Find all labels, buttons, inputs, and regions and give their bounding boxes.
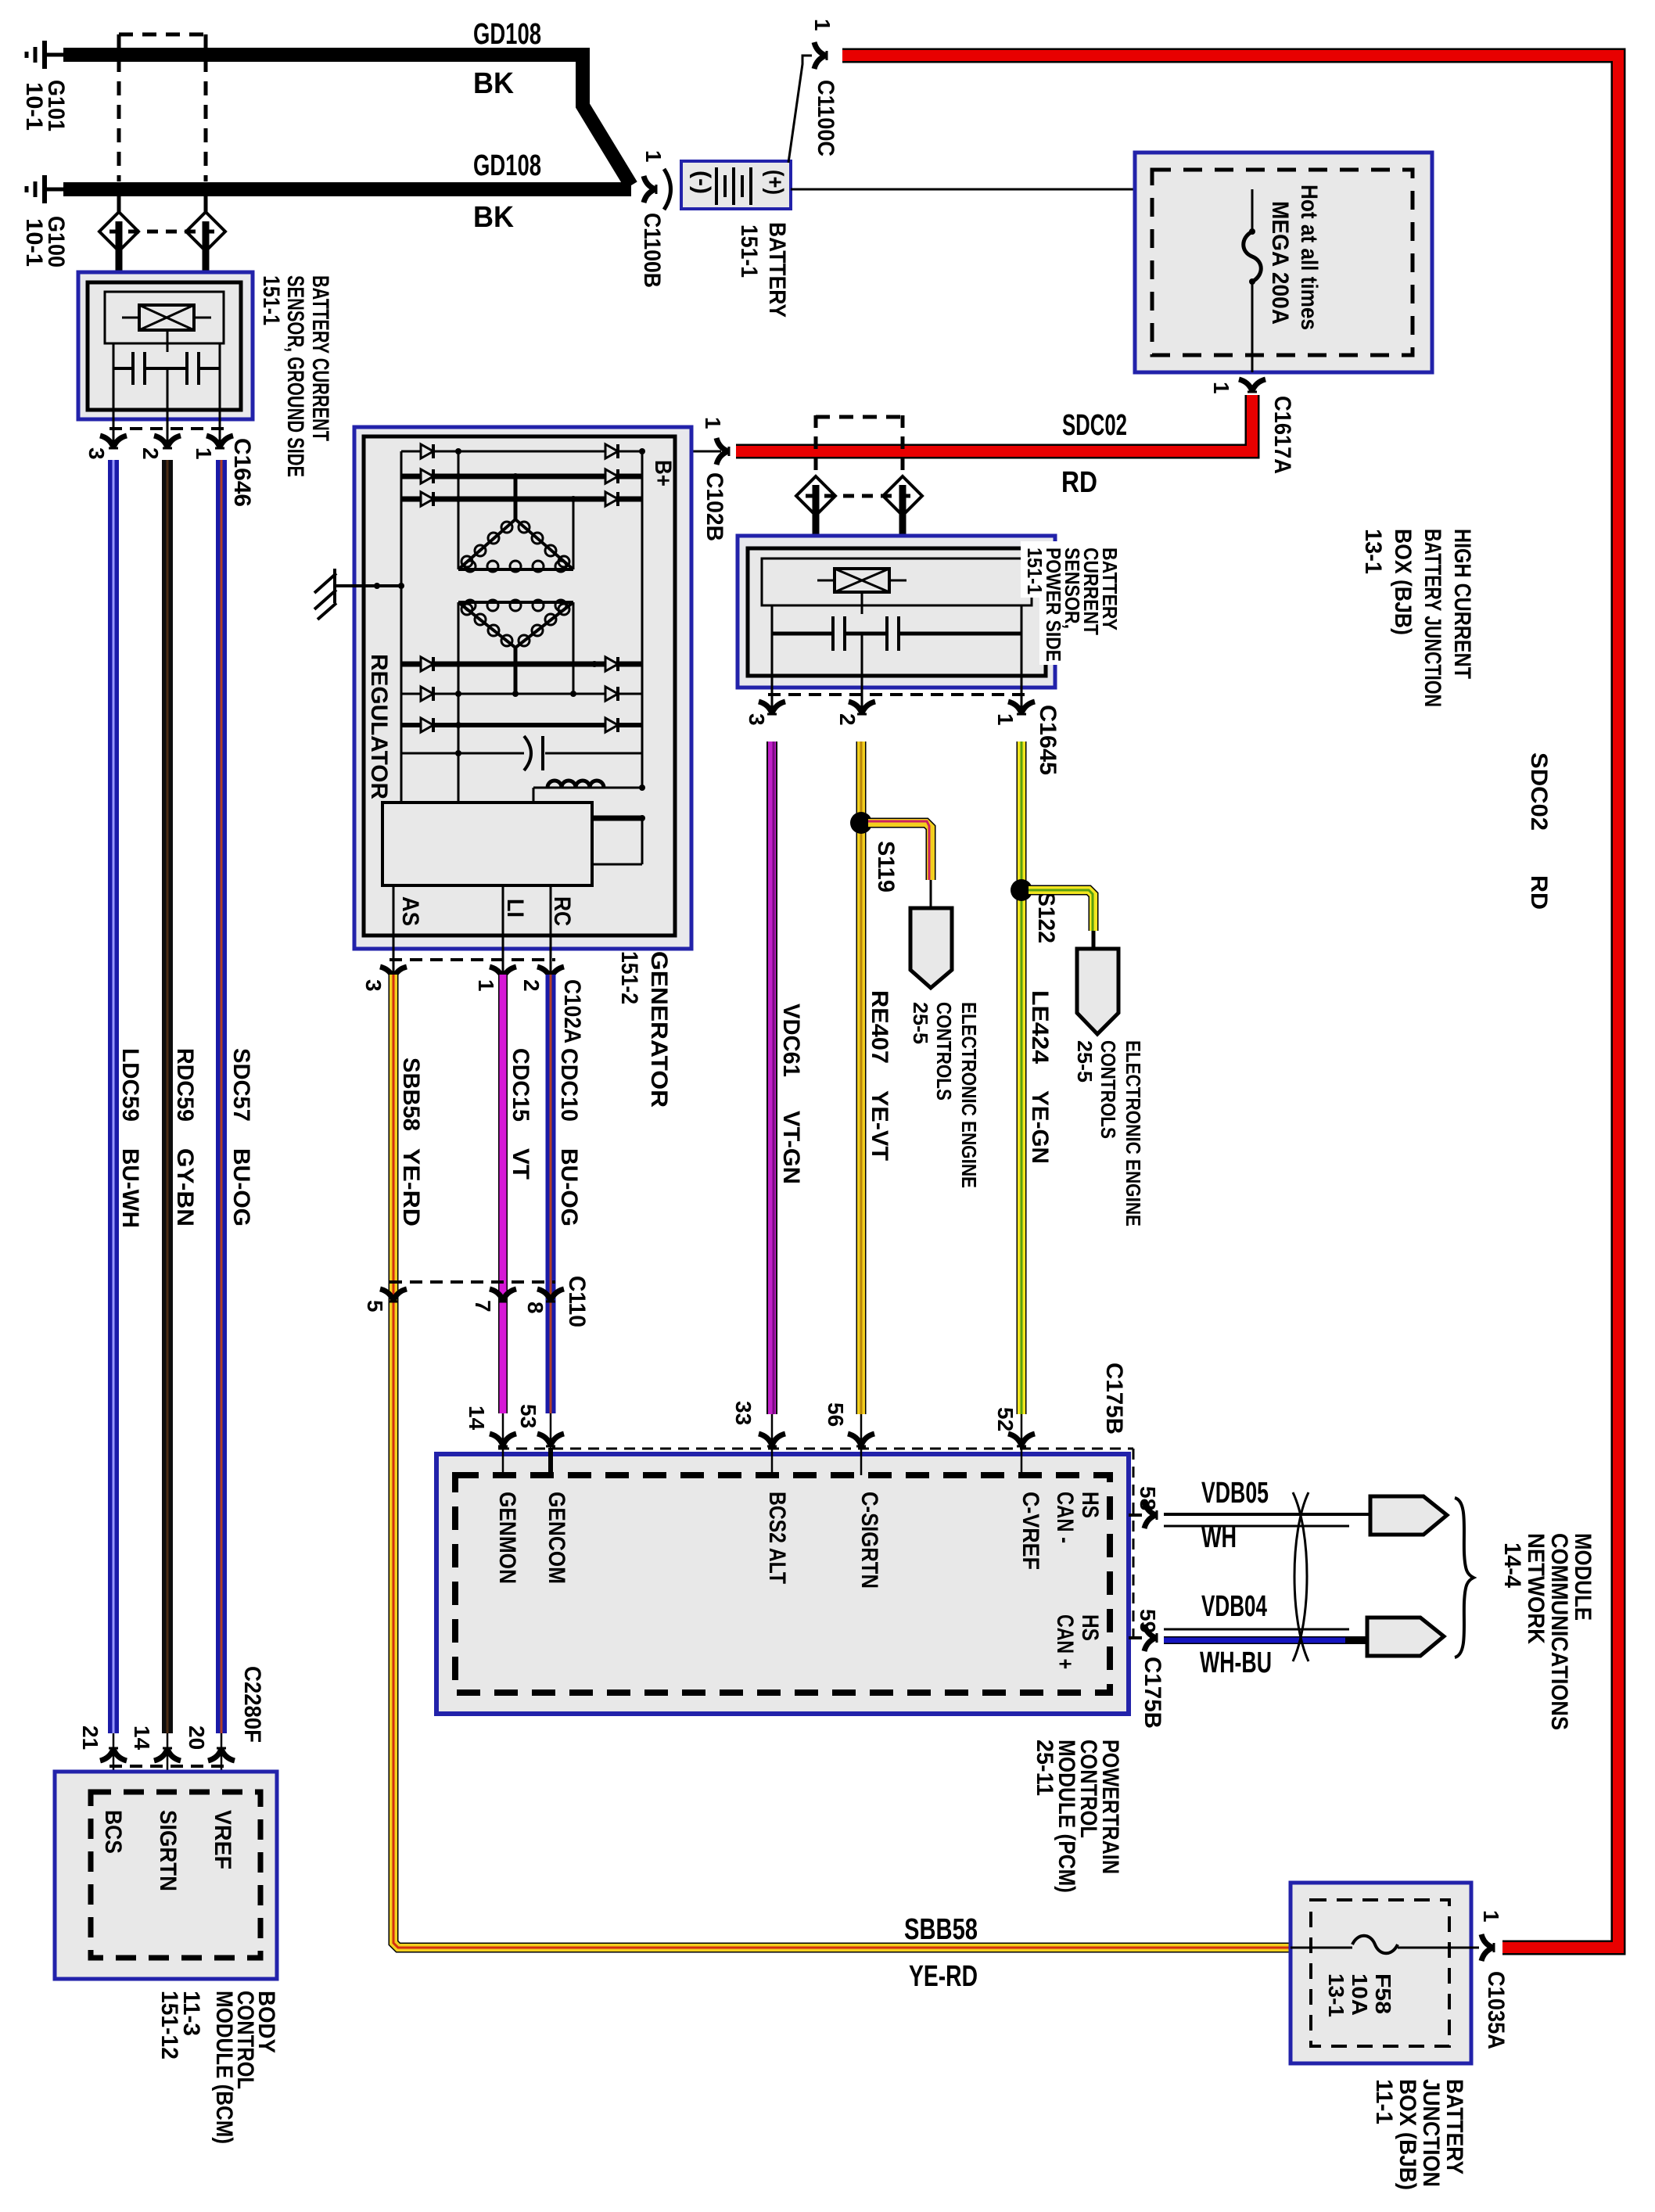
- svg-text:YE-RD: YE-RD: [398, 1148, 424, 1226]
- generator B+ output lead: [675, 451, 721, 453]
- PCM pin 52 lead and arrow: [1008, 1414, 1035, 1475]
- wire label VDB05 WH: [1201, 1477, 1269, 1554]
- connector C110 pin 5 arrow: [380, 1289, 407, 1302]
- connector C2280F pin 21 arrow: [100, 1733, 127, 1792]
- svg-text:151-1: 151-1: [1023, 548, 1046, 594]
- svg-text:WH: WH: [1201, 1521, 1237, 1554]
- fuse F58 10A: [1291, 1936, 1479, 1954]
- battery current sensor power side box 151-1: [738, 536, 1055, 688]
- svg-text:C2280F: C2280F: [239, 1666, 265, 1743]
- connector label C1100B: [639, 213, 665, 288]
- svg-text:JUNCTION: JUNCTION: [1418, 2079, 1444, 2187]
- svg-text:BU-WH: BU-WH: [117, 1148, 143, 1228]
- wire label RE407 YE-VT: [867, 990, 892, 1161]
- generator vertical to regulator: [458, 753, 460, 803]
- pin number 2 (C102A): [519, 979, 544, 992]
- svg-text:C110: C110: [564, 1276, 590, 1327]
- connector label C1645: [1035, 705, 1061, 775]
- connector C2280F dashed line: [109, 1765, 225, 1768]
- sensor ground capacitor C2: [187, 352, 199, 385]
- wire SBB58 YE-RD (generator AS to BJB fuse F58): [393, 975, 1291, 1948]
- svg-text:NETWORK: NETWORK: [1523, 1533, 1549, 1644]
- PCM port BCS2 ALT: [764, 1492, 790, 1584]
- sensor ground capacitor C1: [133, 352, 145, 385]
- svg-text:1: 1: [810, 19, 835, 31]
- dashed sensor clamp box (ground side): [119, 34, 206, 181]
- sensor ground capacitor line: [113, 367, 220, 370]
- svg-text:BOX (BJB): BOX (BJB): [1390, 529, 1416, 635]
- wire label SDC02 RD (right edge): [1526, 752, 1552, 910]
- ground G100: [27, 175, 64, 203]
- svg-text:MODULE: MODULE: [1570, 1533, 1596, 1621]
- generator pin stub RC: [550, 885, 552, 975]
- connector C1646 dashed line: [109, 427, 224, 430]
- generator diode row 2: [401, 469, 642, 483]
- svg-text:BK: BK: [473, 201, 515, 234]
- wire label GD108 BK top: [473, 18, 541, 100]
- svg-text:SBB58: SBB58: [398, 1058, 424, 1131]
- BCM inner dashed connector box: [91, 1792, 260, 1958]
- clamp diamond right (power side): [883, 476, 922, 536]
- splice label S119: [873, 841, 899, 892]
- svg-text:RD: RD: [1526, 875, 1552, 910]
- dashed link between diamonds: [109, 230, 215, 234]
- svg-text:58: 58: [1136, 1486, 1160, 1510]
- svg-text:151-2: 151-2: [616, 951, 642, 1004]
- generator capacitor line: [401, 750, 642, 756]
- generator field lead and frame ground: [314, 569, 404, 619]
- svg-text:BCS2 ALT: BCS2 ALT: [764, 1492, 790, 1584]
- ground label G100 10-1: [21, 216, 69, 268]
- pin number 5 (C110): [363, 1300, 387, 1312]
- battery (-) terminal symbol: [689, 171, 715, 194]
- splice S122: [1011, 879, 1032, 901]
- generator label REGULATOR: [366, 654, 392, 799]
- svg-text:C1645: C1645: [1035, 705, 1061, 775]
- svg-text:14-4: 14-4: [1499, 1542, 1525, 1588]
- svg-text:CONTROLS: CONTROLS: [1097, 1040, 1120, 1139]
- pin number 52 (PCM): [993, 1407, 1018, 1431]
- svg-text:59: 59: [1136, 1609, 1160, 1633]
- svg-text:BATTERY JUNCTION: BATTERY JUNCTION: [1420, 529, 1445, 707]
- svg-text:MEGA 200A: MEGA 200A: [1267, 201, 1293, 325]
- pin number 8 (C110): [523, 1302, 547, 1314]
- svg-text:1: 1: [192, 447, 216, 460]
- battery junction box (BJB) 11-1: [1291, 1883, 1471, 2063]
- svg-text:SENSOR, GROUND SIDE: SENSOR, GROUND SIDE: [282, 275, 308, 477]
- sensor power capacitor line: [772, 632, 1021, 636]
- connector C1100B arrow and socket: [644, 169, 671, 210]
- PCM pin 33 lead and arrow: [759, 1414, 785, 1475]
- generator pin stub AS: [393, 885, 395, 975]
- BJB inner dashed box: [1311, 1900, 1449, 2046]
- svg-text:SDC02: SDC02: [1062, 409, 1127, 442]
- wire VDC61 VT-GN (sensor power 3 to PCM 33): [772, 742, 774, 1414]
- PCM port GENCOM: [544, 1492, 569, 1584]
- sensor ground hall element box: [105, 292, 224, 343]
- svg-text:RDC59: RDC59: [172, 1048, 198, 1122]
- svg-text:13-1: 13-1: [1360, 529, 1386, 574]
- generator label GENERATOR 151-2: [616, 951, 672, 1108]
- network label MODULE COMMUNICATIONS NETWORK 14-4: [1499, 1533, 1596, 1730]
- pin number 21 (C2280F): [78, 1725, 102, 1750]
- connector C1646 pin 1 arrow: [206, 436, 233, 448]
- PCM pin 14 lead and arrow: [490, 1413, 516, 1475]
- fuse MEGA 200A: [1244, 189, 1262, 372]
- generator pin stub LI: [502, 885, 504, 975]
- connector label C175B (bottom): [1140, 1657, 1165, 1729]
- generator port label RC: [549, 896, 575, 926]
- pin number 1 (C1646): [192, 447, 216, 460]
- wire label SDC02 RD (mid): [1061, 409, 1127, 499]
- wire SDC02 RD from C1617A to generator B+: [736, 395, 1252, 451]
- network brace: [1455, 1498, 1474, 1657]
- wire CDC15 VT (generator LI to C110-7): [498, 975, 508, 1413]
- battery 151-1 box: [681, 161, 791, 209]
- svg-text:BATTERY: BATTERY: [764, 222, 790, 318]
- connector label C102A: [559, 979, 585, 1043]
- connector C102A pin 3 arrow: [380, 967, 407, 979]
- wire S119 branch to electronic engine controls: [868, 821, 931, 908]
- svg-text:C1100B: C1100B: [639, 213, 665, 288]
- ground label G101 10-1: [21, 80, 69, 131]
- connector label C1035A: [1483, 1971, 1509, 2049]
- svg-text:151-12: 151-12: [156, 1991, 182, 2059]
- generator diode row 3: [401, 492, 642, 506]
- sensor power label BATTERY CURRENT SENSOR, POWER SIDE 151-1: [1021, 541, 1122, 665]
- svg-text:AS: AS: [397, 896, 423, 926]
- connector C1617A arrow: [1239, 379, 1265, 392]
- generator diode row 5: [401, 687, 642, 701]
- connector label C175B (top): [1101, 1363, 1127, 1435]
- svg-text:C102A: C102A: [559, 979, 585, 1043]
- battery current sensor ground side box 151-1: [78, 272, 253, 419]
- svg-text:8: 8: [523, 1302, 547, 1314]
- svg-text:HIGH CURRENT: HIGH CURRENT: [1449, 529, 1475, 679]
- pin number 1 (C1645): [993, 713, 1018, 726]
- svg-text:151-1: 151-1: [736, 224, 762, 278]
- connector label C1617A: [1269, 396, 1295, 474]
- svg-text:10-1: 10-1: [21, 82, 47, 131]
- connector C102A dashed line: [390, 958, 555, 961]
- svg-text:53: 53: [516, 1404, 540, 1428]
- sensor power internal wires: [772, 592, 1021, 676]
- wire label SBB58 YE-RD (bottom horizontal): [904, 1913, 978, 1993]
- PCM label POWERTRAIN CONTROL MODULE (PCM) 25-11: [1032, 1740, 1123, 1893]
- svg-text:11-1: 11-1: [1371, 2079, 1397, 2124]
- pin number 3 (C102A): [361, 979, 386, 992]
- svg-text:HS: HS: [1077, 1492, 1103, 1518]
- sensor power hall element box: [762, 558, 1032, 605]
- svg-text:BOX (BJB): BOX (BJB): [1395, 2079, 1420, 2190]
- wire VDB04 WH-BU twisted pair: [1164, 1629, 1370, 1640]
- svg-text:10-1: 10-1: [21, 218, 47, 267]
- wire label GD108 BK bottom: [473, 149, 541, 234]
- svg-text:ELECTRONIC ENGINE: ELECTRONIC ENGINE: [957, 1002, 981, 1188]
- PCM pin 56 lead and arrow: [848, 1414, 874, 1475]
- terminal lug VDB05: [1370, 1496, 1447, 1535]
- fuse label Hot at all times MEGA 200A: [1267, 185, 1322, 330]
- svg-text:C175B: C175B: [1101, 1363, 1127, 1435]
- svg-text:VT: VT: [508, 1148, 533, 1180]
- svg-text:CAN -: CAN -: [1052, 1492, 1078, 1543]
- wire S122 branch to electronic engine controls: [1029, 890, 1093, 949]
- generator capacitor symbol: [524, 736, 543, 770]
- svg-text:CDC10: CDC10: [556, 1048, 582, 1122]
- dashed sensor clamp box (power side): [816, 415, 903, 479]
- connector label C1646: [229, 438, 255, 507]
- connector label C1100C: [813, 80, 838, 156]
- connector C1100C arrow: [814, 42, 827, 69]
- svg-text:1: 1: [701, 417, 725, 429]
- wire VDB05 WH twisted pair: [1164, 1514, 1373, 1526]
- pin number 2 (C1645): [835, 713, 860, 726]
- generator label B+: [650, 460, 676, 487]
- svg-text:CONTROLS: CONTROLS: [932, 1002, 956, 1101]
- pin number 33 (PCM): [731, 1401, 756, 1425]
- PCM pin 53 lead and arrow: [537, 1413, 564, 1478]
- sensor ground X element: [122, 305, 211, 330]
- body control module (BCM) box: [55, 1772, 277, 1979]
- svg-text:S122: S122: [1033, 892, 1059, 943]
- svg-text:1: 1: [993, 713, 1018, 726]
- PCM pin 58 lead and arrow: [1129, 1502, 1157, 1528]
- svg-text:C1617A: C1617A: [1269, 396, 1295, 474]
- sensor power inner case: [748, 548, 1046, 676]
- svg-text:BK: BK: [473, 67, 515, 100]
- label ELECTRONIC ENGINE CONTROLS 25-5 (S122): [1073, 1040, 1145, 1226]
- wire label CDC10 BU-OG: [556, 1048, 582, 1226]
- svg-text:CAN +: CAN +: [1052, 1614, 1078, 1669]
- pin number 3 (C1646): [84, 447, 109, 460]
- pin number 56 (PCM): [824, 1402, 848, 1427]
- svg-text:13-1: 13-1: [1324, 1973, 1348, 2017]
- svg-text:SBB58: SBB58: [904, 1913, 978, 1946]
- PCM port GENMON: [494, 1492, 520, 1584]
- svg-text:VREF: VREF: [210, 1810, 235, 1869]
- svg-text:YE-GN: YE-GN: [1027, 1090, 1053, 1164]
- svg-text:GD108: GD108: [473, 18, 541, 51]
- BCM port BCS: [100, 1810, 126, 1854]
- high current BJB inner dashed box: [1152, 170, 1413, 355]
- PCM port C-SIGRTN: [856, 1492, 882, 1589]
- svg-text:VDB04: VDB04: [1201, 1590, 1267, 1623]
- wire battery positive to high current BJB: [791, 189, 1252, 191]
- pin number 2 (C1646): [138, 447, 163, 460]
- svg-text:LE424: LE424: [1027, 990, 1053, 1064]
- svg-text:3: 3: [84, 447, 109, 460]
- connector C1035A arrow: [1481, 1934, 1494, 1961]
- wire LDC59 BU-WH (pin3 to BCM 21): [108, 460, 119, 1733]
- svg-text:VDB05: VDB05: [1201, 1477, 1269, 1510]
- pin number 7 (C110): [471, 1300, 495, 1312]
- pin number 1 (C1035A): [1479, 1910, 1503, 1923]
- battery label BATTERY 151-1: [736, 222, 790, 318]
- high current battery junction box (BJB) 13-1: [1135, 153, 1432, 372]
- svg-text:BU-OG: BU-OG: [228, 1148, 254, 1226]
- svg-text:33: 33: [731, 1401, 756, 1425]
- generator 151-2 box: [354, 427, 691, 949]
- generator port label LI: [502, 899, 528, 917]
- svg-text:1: 1: [474, 979, 498, 992]
- connector C1645 pin 2 arrow: [849, 702, 875, 714]
- connector label C102B: [702, 472, 727, 541]
- svg-text:BATTERY CURRENT: BATTERY CURRENT: [307, 275, 333, 441]
- sensor ground internal wires: [113, 330, 220, 410]
- generator diode row 4: [401, 657, 642, 671]
- svg-text:14: 14: [465, 1406, 489, 1431]
- connector C1646 pin 2 arrow: [154, 436, 181, 448]
- sensor ground label BATTERY CURRENT SENSOR, GROUND SIDE 151-1: [258, 275, 333, 477]
- wire CDC10 BU-OG (generator RC to C110-8): [546, 975, 556, 1413]
- svg-text:151-1: 151-1: [258, 275, 284, 325]
- fuse label F58 10A 13-1: [1324, 1973, 1395, 2017]
- svg-text:VT-GN: VT-GN: [778, 1111, 804, 1184]
- wire battery positive to C1100C: [788, 56, 812, 163]
- svg-text:SDC57: SDC57: [228, 1048, 254, 1122]
- sensor power capacitor C2: [887, 616, 899, 651]
- connector C110 pin 7 arrow: [490, 1289, 516, 1302]
- clamp diamond left (ground side): [99, 196, 138, 272]
- svg-text:RC: RC: [549, 896, 575, 926]
- generator inner case: [364, 436, 675, 935]
- connector C1645 pin 3 arrow: [759, 702, 785, 714]
- pin number 20 (C2280F): [185, 1725, 209, 1750]
- svg-text:C1100C: C1100C: [813, 80, 838, 156]
- svg-text:10A: 10A: [1348, 1973, 1372, 2016]
- pin number 14 (PCM): [465, 1406, 489, 1431]
- svg-text:B+: B+: [650, 460, 676, 487]
- svg-text:25-5: 25-5: [1073, 1040, 1097, 1083]
- splice label S122: [1033, 892, 1059, 943]
- generator stator delta lower: [458, 600, 573, 803]
- svg-text:14: 14: [130, 1725, 154, 1751]
- wire label VDC61 VT-GN: [778, 1004, 804, 1184]
- BCM label BODY CONTROL MODULE (BCM) 11-3 151-12: [156, 1991, 279, 2144]
- wire RDC59 GY-BN (pin2 to BCM 14): [162, 460, 173, 1733]
- connector C2280F pin 14 arrow: [154, 1733, 181, 1792]
- svg-text:52: 52: [993, 1407, 1018, 1431]
- generator diode row 6: [401, 718, 642, 732]
- wire LE424 YE-GN (sensor power 1 to PCM 52): [1017, 742, 1027, 1414]
- svg-text:MODULE (BCM): MODULE (BCM): [211, 1991, 237, 2144]
- pin number 53 (PCM): [516, 1404, 540, 1428]
- svg-text:3: 3: [361, 979, 386, 992]
- svg-text:GENERATOR: GENERATOR: [646, 951, 672, 1108]
- connector C1646 pin 3 arrow: [100, 436, 127, 448]
- label ELECTRONIC ENGINE CONTROLS 25-5 (S119): [909, 1002, 981, 1188]
- generator regulator box: [382, 803, 592, 885]
- svg-text:BATTERY: BATTERY: [1441, 2079, 1467, 2174]
- generator left bus: [400, 451, 403, 803]
- pin number 1 (C1100B): [641, 150, 666, 163]
- clamp diamond left (power side): [796, 476, 835, 536]
- connector C2280F pin 20 arrow: [208, 1733, 235, 1792]
- svg-text:LDC59: LDC59: [117, 1048, 143, 1122]
- wire label LDC59 BU-WH: [117, 1048, 143, 1228]
- svg-text:(+): (+): [762, 170, 788, 195]
- svg-text:C-VREF: C-VREF: [1018, 1492, 1043, 1570]
- svg-text:HS: HS: [1077, 1614, 1103, 1641]
- generator port label AS: [397, 896, 423, 926]
- generator regulator right link: [592, 815, 645, 864]
- svg-text:(-): (-): [689, 171, 715, 194]
- wire label CDC15 VT: [508, 1048, 533, 1180]
- svg-text:20: 20: [185, 1725, 209, 1750]
- generator stator delta upper: [458, 451, 573, 572]
- svg-text:GY-BN: GY-BN: [172, 1148, 198, 1226]
- battery (+) terminal symbol: [762, 170, 788, 195]
- pin number 14 (C2280F): [130, 1725, 154, 1751]
- svg-text:C102B: C102B: [702, 472, 727, 541]
- svg-text:YE-VT: YE-VT: [867, 1090, 892, 1161]
- svg-text:1: 1: [1479, 1910, 1503, 1923]
- wire SDC02 RD main run (top and right edge and bottom): [842, 56, 1618, 1948]
- svg-text:C1035A: C1035A: [1483, 1971, 1509, 2049]
- connector C1645 pin 1 arrow: [1008, 702, 1035, 714]
- PCM inner dashed connector box: [455, 1475, 1110, 1693]
- BCM port VREF: [210, 1810, 235, 1869]
- pin number 1 (C1100C): [810, 19, 835, 31]
- svg-text:REGULATOR: REGULATOR: [366, 654, 392, 799]
- wire label LE424 YE-GN: [1027, 990, 1053, 1164]
- generator diode row 1: [401, 444, 645, 458]
- pin number 3 (C1645): [745, 713, 769, 726]
- pin number 1 (C102B): [701, 417, 725, 429]
- svg-text:Hot at all times: Hot at all times: [1296, 185, 1322, 330]
- dashed link between diamonds (power side): [806, 494, 914, 498]
- svg-text:YE-RD: YE-RD: [909, 1960, 978, 1993]
- clamp diamond right (ground side): [186, 196, 225, 272]
- PCM port HS CAN -: [1052, 1492, 1103, 1543]
- generator right bus: [641, 451, 644, 788]
- svg-text:C-SIGRTN: C-SIGRTN: [856, 1492, 882, 1589]
- svg-text:56: 56: [824, 1402, 848, 1427]
- svg-text:3: 3: [745, 713, 769, 726]
- sensor power pin stubs: [772, 676, 1021, 715]
- pin number 1 (C1617A): [1209, 382, 1233, 394]
- svg-text:GENCOM: GENCOM: [544, 1492, 569, 1584]
- svg-text:GD108: GD108: [473, 149, 541, 182]
- svg-text:SDC02: SDC02: [1526, 752, 1552, 831]
- wire RE407 YE-VT (sensor power 2 to PCM 56): [856, 742, 867, 1414]
- generator rotor inductor: [533, 781, 645, 803]
- sensor power X element: [817, 569, 906, 592]
- svg-text:RD: RD: [1061, 466, 1097, 499]
- PCM port HS CAN +: [1052, 1614, 1103, 1669]
- wire label SDC57 BU-OG: [228, 1048, 254, 1226]
- pin number 59 (C175B): [1136, 1609, 1160, 1633]
- wire SDC57 BU-OG (pin1 to BCM 20): [216, 460, 227, 1733]
- BCM port SIGRTN: [155, 1810, 181, 1891]
- connector C102A pin 2 arrow: [537, 967, 564, 979]
- svg-text:5: 5: [363, 1300, 387, 1312]
- wire label VDB04 WH-BU: [1200, 1590, 1272, 1679]
- wire GD108 bottom (BK): [63, 182, 631, 196]
- svg-text:COMMUNICATIONS: COMMUNICATIONS: [1546, 1533, 1572, 1730]
- svg-text:S119: S119: [873, 841, 899, 892]
- svg-text:VDC61: VDC61: [778, 1004, 804, 1077]
- twisted pair twist symbol: [1293, 1492, 1309, 1661]
- powertrain control module (PCM) box: [436, 1454, 1129, 1714]
- svg-text:C1646: C1646: [229, 438, 255, 507]
- wire label RDC59 GY-BN: [172, 1048, 198, 1226]
- connector C102A pin 1 arrow: [490, 967, 516, 979]
- svg-text:2: 2: [138, 447, 163, 460]
- sensor ground inner case: [88, 282, 241, 410]
- svg-text:CDC15: CDC15: [508, 1048, 533, 1122]
- connector C110 pin 8 arrow: [537, 1289, 564, 1302]
